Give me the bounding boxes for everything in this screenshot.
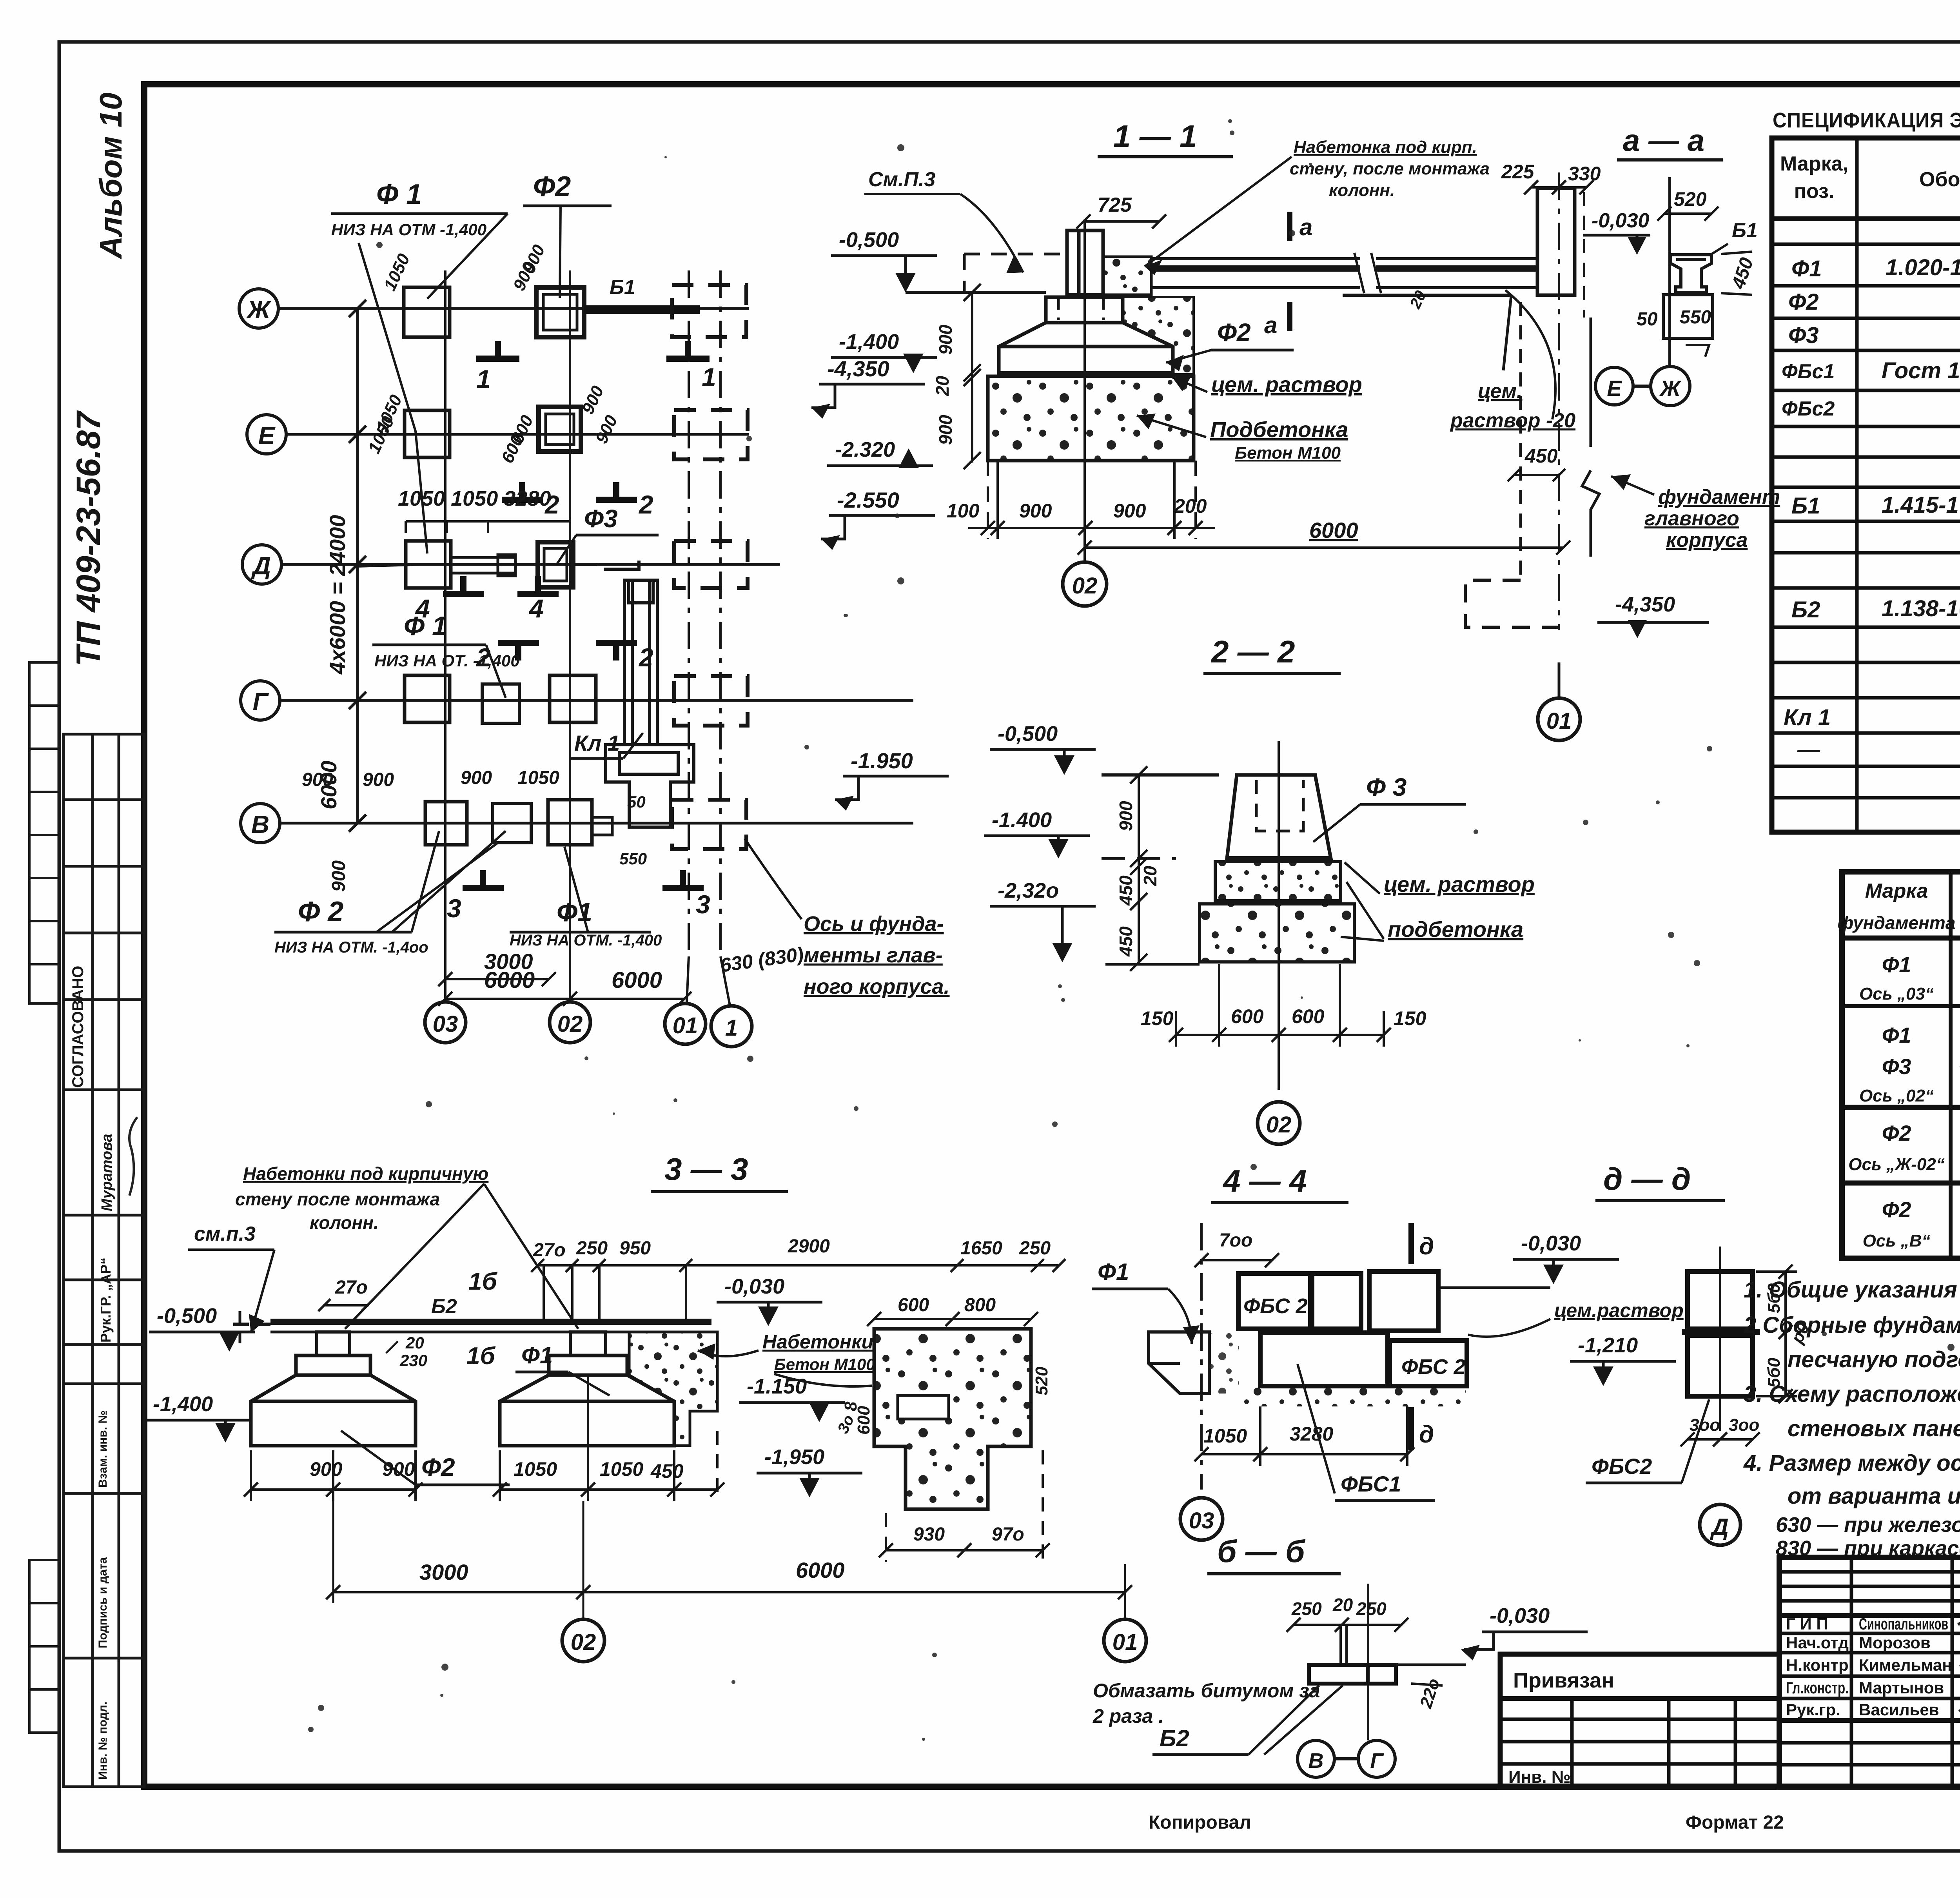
- svg-text:01: 01: [1112, 1629, 1138, 1655]
- svg-text:Ф1: Ф1: [521, 1342, 553, 1368]
- svg-text:Д: Д: [251, 552, 271, 580]
- svg-text:1: 1: [725, 1015, 738, 1041]
- svg-text:Б2: Б2: [1791, 597, 1820, 622]
- label cem rastvor: [1172, 372, 1362, 397]
- svg-text:20: 20: [1140, 866, 1160, 886]
- section mark 2-2 upper: [502, 482, 637, 500]
- svg-text:-0,500: -0,500: [998, 722, 1058, 746]
- axis circle 02 under 1-1: [1063, 562, 1107, 606]
- bottom margin texts: [1149, 1812, 1784, 1833]
- dims 1050 3280 (4-4): [1203, 1423, 1333, 1447]
- axis circle 03 (4-4): [1180, 1498, 1223, 1540]
- svg-text:600: 600: [854, 1406, 873, 1435]
- svg-text:450: 450: [1524, 445, 1558, 467]
- label nabetonki beton M100: [698, 1331, 875, 1386]
- svg-text:стену после монтажа: стену после монтажа: [235, 1189, 440, 1209]
- svg-text:Инв. №: Инв. №: [1508, 1767, 1571, 1787]
- vertical dim line 24000: [349, 300, 366, 832]
- svg-text:1.020-1/83 1-1: 1.020-1/83 1-1: [1886, 255, 1960, 280]
- svg-text:Взам. инв. №: Взам. инв. №: [96, 1410, 109, 1488]
- label FBS1 (4-4): [1298, 1364, 1435, 1501]
- svg-text:-0,030: -0,030: [724, 1275, 784, 1298]
- svg-text:Ось „В“: Ось „В“: [1863, 1231, 1931, 1250]
- svg-text:225: 225: [1501, 161, 1535, 183]
- svg-text:ФБс2: ФБс2: [1782, 397, 1835, 420]
- svg-text:ФБС2: ФБС2: [1592, 1454, 1652, 1479]
- svg-text:930: 930: [913, 1524, 945, 1545]
- svg-text:песчаную подготовку высотой: песчаную подготовку высотой h=100мм .: [1788, 1347, 1960, 1372]
- elevation -1.150: [739, 1375, 860, 1436]
- svg-text:от варианта исполнения гла: от варианта исполнения главного корпуса …: [1788, 1483, 1960, 1509]
- svg-text:Привязан: Привязан: [1513, 1669, 1614, 1692]
- NOTES: [1743, 1277, 1960, 1560]
- foundation trapezoid 2 (F1): [500, 1332, 674, 1446]
- svg-text:150: 150: [1394, 1007, 1426, 1029]
- svg-text:-0,500: -0,500: [839, 228, 899, 252]
- svg-text:Ф2: Ф2: [533, 171, 571, 202]
- dims 225 330: [1501, 161, 1601, 194]
- svg-text:Кимельман: Кимельман: [1859, 1656, 1952, 1674]
- svg-text:ФБС1: ФБС1: [1341, 1472, 1401, 1496]
- svg-text:Г И П: Г И П: [1786, 1615, 1828, 1633]
- svg-text:900: 900: [382, 1458, 415, 1480]
- svg-text:02: 02: [1072, 573, 1098, 599]
- dashed rect row D: [674, 541, 748, 588]
- dim 450 mid: [1508, 445, 1565, 481]
- svg-text:1050 1050 3280: 1050 1050 3280: [398, 487, 551, 510]
- svg-text:03: 03: [1189, 1508, 1214, 1533]
- elevation -1.210 (4-4): [1570, 1334, 1676, 1386]
- svg-text:900: 900: [1019, 500, 1052, 522]
- elevation -0.030 (4-4): [1441, 1232, 1619, 1288]
- rotated dims top: [365, 242, 622, 466]
- load table header texts: [1838, 878, 1960, 944]
- dim 520: [1657, 188, 1719, 221]
- label F3 (2-2): [1313, 773, 1466, 842]
- svg-text:д: д: [1419, 1421, 1434, 1448]
- svg-text:а: а: [1299, 214, 1312, 240]
- floor beams: [1151, 253, 1536, 293]
- strip labels: [69, 966, 137, 1780]
- svg-text:корпуса: корпуса: [1666, 529, 1748, 552]
- svg-text:1.138-10 в.1: 1.138-10 в.1: [1882, 596, 1960, 621]
- svg-text:520: 520: [1674, 188, 1707, 210]
- svg-text:-4,350: -4,350: [1615, 593, 1675, 616]
- squares row E: [405, 407, 581, 457]
- svg-text:Подпись и дата: Подпись и дата: [96, 1557, 109, 1648]
- svg-text:50: 50: [627, 793, 646, 811]
- scan specks: [308, 119, 1960, 1741]
- svg-text:6000: 6000: [484, 967, 535, 993]
- axis row lines: [278, 308, 913, 823]
- svg-text:7оо: 7оо: [1219, 1230, 1252, 1251]
- svg-text:цем.: цем.: [1478, 380, 1522, 403]
- svg-text:д — д: д — д: [1603, 1161, 1691, 1196]
- section mark 1-1 on plan: [476, 341, 710, 359]
- svg-text:600: 600: [1231, 1005, 1264, 1027]
- svg-text:Ось „Ж-02“: Ось „Ж-02“: [1848, 1155, 1944, 1174]
- svg-text:1050: 1050: [600, 1458, 643, 1480]
- label F2 top: [523, 171, 612, 298]
- svg-text:Д: Д: [1710, 1514, 1728, 1540]
- svg-text:900: 900: [302, 769, 333, 790]
- elevation -4.350 low: [1597, 593, 1709, 638]
- svg-text:550: 550: [619, 849, 647, 868]
- svg-text:Обмазать битумом за: Обмазать битумом за: [1093, 1680, 1320, 1702]
- dashed rect row E: [674, 410, 748, 459]
- TITLE BLOCK attachment table: [1500, 1654, 1779, 1787]
- svg-text:Б1: Б1: [1791, 493, 1820, 519]
- label obmazat bitumom: [1093, 1680, 1320, 1727]
- axis circle 01 under 1-1: [1538, 662, 1580, 740]
- axis circles E Zh in a-a: [1595, 367, 1690, 406]
- axis circle V: [241, 804, 280, 843]
- svg-text:Формат 22: Формат 22: [1686, 1812, 1784, 1833]
- svg-text:Мартынов: Мартынов: [1859, 1678, 1944, 1697]
- nabetonka stipple right of column: [1103, 257, 1151, 295]
- svg-text:3: 3: [696, 890, 710, 919]
- svg-text:Рук.ГР. „АР“: Рук.ГР. „АР“: [98, 1257, 114, 1343]
- label F3: [557, 504, 659, 564]
- right column of section 1-1: [1343, 172, 1599, 630]
- vertical axis 02: [569, 270, 571, 1003]
- svg-text:В: В: [1308, 1749, 1324, 1773]
- elevation -1.400: [831, 330, 937, 373]
- elevation -1.400 (3-3): [145, 1392, 251, 1443]
- svg-text:Подбетонка: Подбетонка: [1210, 417, 1348, 442]
- svg-text:главного: главного: [1644, 507, 1739, 530]
- bottom dims of section 1-1: [947, 495, 1207, 522]
- section mark 3-3: [463, 870, 704, 888]
- svg-text:150: 150: [1141, 1007, 1174, 1029]
- beam B2 line: [233, 1311, 711, 1344]
- svg-text:450: 450: [650, 1460, 684, 1482]
- elevation -4.350: [811, 356, 925, 419]
- svg-text:а: а: [1264, 312, 1277, 338]
- svg-text:Ф 1: Ф 1: [404, 611, 447, 641]
- svg-text:-1.950: -1.950: [851, 748, 913, 773]
- dashed rect row G: [674, 676, 748, 726]
- svg-text:Н.контр.: Н.контр.: [1786, 1656, 1853, 1674]
- axis circle E: [247, 415, 286, 454]
- svg-text:цем. раствор: цем. раствор: [1211, 372, 1362, 397]
- svg-text:Ж: Ж: [1659, 376, 1682, 401]
- title block signature labels: [1786, 1615, 1952, 1719]
- nabetonka stipple wedge: [1123, 297, 1194, 374]
- svg-text:-0,030: -0,030: [1490, 1604, 1550, 1628]
- svg-text:фундамента: фундамента: [1838, 913, 1956, 933]
- svg-text:450: 450: [1116, 875, 1136, 906]
- channel Kl1: [606, 580, 694, 827]
- dims 930 970: [913, 1524, 1024, 1545]
- svg-text:4 — 4: 4 — 4: [1222, 1163, 1307, 1198]
- svg-text:725: 725: [1098, 194, 1132, 216]
- svg-text:1050: 1050: [1203, 1425, 1247, 1447]
- dim 6000 under 1-1: [1078, 518, 1570, 555]
- svg-text:Обозначение: Обозначение: [1919, 168, 1960, 191]
- svg-text:-1,400: -1,400: [153, 1392, 213, 1416]
- d-d blocks: [1682, 1247, 1760, 1431]
- left registration strip: [64, 734, 144, 1787]
- label FBS2 (d-d): [1586, 1399, 1709, 1483]
- axis line through a-a: [1670, 177, 1709, 365]
- svg-text:-2.550: -2.550: [837, 488, 899, 512]
- svg-text:4. Размер между осями „01“: 4. Размер между осями „01“-„1“ определяе…: [1743, 1450, 1960, 1476]
- axis circle D: [242, 545, 281, 584]
- label F1 top: [331, 179, 508, 553]
- squares row G: [405, 675, 596, 723]
- svg-text:3. Схему расположения цокол: 3. Схему расположения цокольных балок см…: [1744, 1381, 1960, 1407]
- svg-text:Б1: Б1: [1732, 219, 1758, 242]
- svg-text:200: 200: [1174, 495, 1207, 517]
- dims under trap2: [514, 1458, 684, 1482]
- load table row label col: [1848, 952, 1944, 1250]
- label sm.p.3 (3-3): [188, 1223, 274, 1333]
- beam B1 on plan: [584, 276, 700, 310]
- svg-text:1: 1: [476, 365, 491, 394]
- nabetonka stipple right of trap2: [629, 1332, 717, 1446]
- rotated dims right mass: [854, 1366, 1051, 1435]
- blocks row1 (4-4): [1238, 1272, 1438, 1331]
- svg-text:Набетонка под кирп.: Набетонка под кирп.: [1294, 138, 1477, 157]
- svg-text:900: 900: [461, 768, 492, 788]
- label podbetonka: [1137, 414, 1348, 463]
- svg-text:520: 520: [1032, 1366, 1051, 1395]
- svg-text:Набетонки под кирпичную: Набетонки под кирпичную: [243, 1163, 488, 1184]
- svg-text:колонн.: колонн.: [1329, 181, 1395, 200]
- svg-text:900: 900: [1113, 500, 1146, 522]
- elevation -0.030 (3-3): [717, 1275, 822, 1326]
- dim 725: [1076, 194, 1166, 229]
- section 1-1 title: [1098, 119, 1233, 157]
- svg-text:ФБС 2: ФБС 2: [1243, 1294, 1308, 1318]
- svg-text:Гл.констр.: Гл.констр.: [1786, 1678, 1849, 1697]
- svg-text:—: —: [1797, 737, 1820, 762]
- svg-text:Ф1: Ф1: [1882, 952, 1911, 977]
- svg-text:01: 01: [673, 1013, 698, 1038]
- vertical axis 1 dash-dot: [720, 270, 730, 1005]
- svg-text:раствор -20: раствор -20: [1450, 409, 1575, 432]
- section mark 4-4: [443, 576, 559, 594]
- svg-text:3оо: 3оо: [1690, 1415, 1720, 1435]
- svg-text:Копировал: Копировал: [1149, 1812, 1251, 1833]
- elevation -0.500 (3-3): [149, 1304, 255, 1352]
- svg-text:Е: Е: [1607, 376, 1622, 401]
- svg-text:20: 20: [405, 1334, 424, 1352]
- axis line of 1-1: [1083, 220, 1086, 561]
- dims 600 800: [898, 1295, 996, 1316]
- bottom dims (2-2): [1169, 964, 1391, 1047]
- svg-text:-1,400: -1,400: [839, 330, 899, 354]
- svg-text:СПЕЦИФИКАЦИЯ ЭЛЕМЕНТОВ К СХЕМЕ: СПЕЦИФИКАЦИЯ ЭЛЕМЕНТОВ К СХЕМЕ РАСПОЛОЖЕ…: [1773, 109, 1960, 132]
- note osk i fundamenty: [745, 839, 950, 998]
- label B1 in a-a: [1709, 219, 1758, 256]
- svg-text:стеновых панелей - лист 13: стеновых панелей - лист 13: [1788, 1416, 1960, 1441]
- svg-text:Ф3: Ф3: [1882, 1054, 1911, 1079]
- svg-text:-0,030: -0,030: [1521, 1232, 1581, 1255]
- svg-text:поз.: поз.: [1794, 180, 1835, 203]
- LOAD TABLE grid: [1842, 872, 1960, 1258]
- foundation F2 in section 1-1: [999, 297, 1173, 374]
- svg-text:Е: Е: [258, 421, 276, 450]
- svg-text:менты глав-: менты глав-: [804, 944, 943, 967]
- svg-text:НИЗ НА ОТМ. -1,400: НИЗ НА ОТМ. -1,400: [510, 932, 662, 949]
- svg-text:900: 900: [363, 769, 394, 790]
- F1 block left (4-4): [1149, 1332, 1209, 1394]
- axis dash-dot (4-4): [1200, 1223, 1203, 1490]
- SPEC TABLE title: [1773, 109, 1960, 132]
- vertical dim chain 900/20/900: [964, 284, 981, 469]
- svg-text:6000: 6000: [1309, 518, 1358, 543]
- svg-text:-2.320: -2.320: [835, 438, 895, 461]
- svg-text:900: 900: [1116, 801, 1136, 831]
- svg-text:Ж: Ж: [246, 296, 272, 324]
- svg-text:02: 02: [571, 1629, 596, 1655]
- beam T cross-section B1: [1671, 255, 1711, 292]
- svg-text:Ось „03“: Ось „03“: [1859, 984, 1934, 1003]
- elevation -0.030 (b-b): [1396, 1604, 1588, 1665]
- dims 20 230: [386, 1334, 427, 1370]
- squares row D: [406, 541, 573, 588]
- signatures squiggles: [1958, 1618, 1960, 1716]
- far-left edge mini cells: [29, 662, 59, 1733]
- svg-text:Ф3: Ф3: [584, 504, 618, 533]
- dim 1050 1050 3280: [398, 487, 570, 533]
- svg-text:Б1: Б1: [610, 276, 635, 299]
- svg-text:1б: 1б: [468, 1268, 497, 1295]
- svg-text:Ось и фунда-: Ось и фунда-: [804, 912, 944, 936]
- label F1 (4-4): [1092, 1259, 1200, 1344]
- svg-text:2: 2: [638, 490, 653, 519]
- vertical axis 03: [444, 270, 446, 1003]
- svg-text:Альбом 10: Альбом 10: [93, 93, 128, 259]
- label sm.p.3: [864, 168, 1023, 273]
- svg-text:900: 900: [310, 1458, 343, 1480]
- svg-text:Васильев: Васильев: [1859, 1700, 1939, 1719]
- svg-text:д: д: [1419, 1233, 1434, 1260]
- svg-text:Ф 1: Ф 1: [376, 179, 422, 210]
- podbetonka stippled block: [988, 376, 1194, 461]
- axis circle 02 bottom: [550, 1002, 590, 1043]
- svg-text:50: 50: [1637, 309, 1658, 330]
- elevation -1.400 (2-2): [984, 808, 1090, 858]
- stipple under row2 (4-4): [1239, 1388, 1466, 1406]
- svg-text:ФБС 2: ФБС 2: [1401, 1355, 1466, 1379]
- svg-text:230: 230: [399, 1351, 427, 1370]
- dims above V row: [302, 768, 559, 790]
- svg-text:Ф2: Ф2: [421, 1453, 455, 1481]
- axis circles V G (b-b): [1298, 1740, 1395, 1777]
- svg-text:1.415-1: 1.415-1: [1882, 492, 1959, 518]
- section mark 2-2 lower: [498, 643, 637, 660]
- svg-text:01: 01: [1546, 708, 1572, 734]
- dashed rect row Zh: [672, 285, 746, 337]
- TITLE BLOCK main: [1779, 1557, 1960, 1787]
- dim 700 (4-4): [1194, 1230, 1279, 1267]
- svg-text:В: В: [251, 810, 269, 838]
- stipple block mid (2-2): [1215, 862, 1341, 901]
- svg-text:250: 250: [1356, 1599, 1387, 1619]
- svg-text:450: 450: [1116, 926, 1136, 957]
- svg-text:20: 20: [932, 376, 953, 396]
- svg-text:Б2: Б2: [1160, 1725, 1189, 1751]
- svg-text:3280: 3280: [1290, 1423, 1333, 1445]
- label cem rastvor (2-2): [1345, 862, 1535, 896]
- section 3-3 title: [651, 1152, 788, 1192]
- label F2 bottom left: [274, 831, 506, 956]
- svg-text:3000: 3000: [419, 1560, 468, 1584]
- svg-text:1. Общие указания см. на: 1. Общие указания см. на листе 1: [1744, 1277, 1960, 1303]
- svg-text:Инв. № подл.: Инв. № подл.: [96, 1702, 109, 1780]
- axis circle D (d-d): [1700, 1504, 1740, 1545]
- elevation -0.500: [831, 228, 937, 292]
- svg-text:-0,500: -0,500: [157, 1304, 217, 1328]
- axis circle 03 bottom: [425, 1002, 466, 1043]
- spec table grid: [1772, 138, 1960, 832]
- squares row V: [425, 800, 612, 845]
- blocks row2 (4-4): [1260, 1333, 1467, 1386]
- svg-text:цем.раствор: цем.раствор: [1554, 1299, 1684, 1321]
- label nabetonki pod kirpichnuyu: [235, 1163, 578, 1329]
- b-b dims 250 20 250: [1291, 1595, 1387, 1619]
- dashed floor left of column: [964, 254, 1067, 292]
- elevation -2.320: [827, 438, 933, 468]
- dims under trap1: [310, 1458, 415, 1480]
- svg-text:НИЗ НА ОТМ. -1,4оо: НИЗ НА ОТМ. -1,4оо: [274, 939, 428, 956]
- svg-text:колонн.: колонн.: [310, 1212, 379, 1233]
- axis circle Zh: [239, 289, 278, 328]
- svg-text:Ф1: Ф1: [1098, 1259, 1129, 1285]
- rotated doc number TP 409-23-56.87: [70, 410, 107, 666]
- svg-text:Ф3: Ф3: [1788, 323, 1819, 348]
- section a-a title: [1617, 123, 1723, 160]
- column of section 1-1: [1067, 230, 1103, 295]
- svg-text:950: 950: [619, 1238, 651, 1259]
- small 20 dim right: [1406, 288, 1430, 312]
- svg-text:6000: 6000: [796, 1558, 845, 1582]
- svg-text:800: 800: [964, 1295, 996, 1316]
- vertical axis 01 dash-dot: [687, 270, 689, 1003]
- elevation -0.030 top: [1583, 209, 1650, 255]
- svg-text:Ф1: Ф1: [1791, 256, 1822, 281]
- axis circle 1 bottom: [711, 1006, 752, 1047]
- elevation -2.320 (2-2): [990, 879, 1096, 962]
- ground line: [906, 291, 1046, 294]
- svg-text:ФБс1: ФБс1: [1782, 360, 1835, 383]
- svg-text:Ф 3: Ф 3: [1366, 773, 1406, 801]
- svg-text:2: 2: [638, 643, 653, 672]
- svg-text:Гост 13579-78: Гост 13579-78: [1882, 358, 1960, 383]
- svg-text:Морозов: Морозов: [1859, 1633, 1931, 1652]
- 1d marks (4-4): [1408, 1223, 1414, 1450]
- section d-d title: [1595, 1161, 1725, 1201]
- svg-text:Б2: Б2: [431, 1295, 457, 1318]
- svg-text:-0,030: -0,030: [1592, 209, 1650, 232]
- svg-text:см.п.3: см.п.3: [194, 1223, 256, 1245]
- dim 450 right: [1721, 252, 1757, 295]
- svg-text:Набетонки: Набетонки: [762, 1331, 873, 1353]
- svg-text:1 — 1: 1 — 1: [1113, 119, 1197, 154]
- svg-text:Кл 1: Кл 1: [574, 731, 620, 755]
- svg-text:900: 900: [935, 325, 956, 355]
- svg-text:Ф 2: Ф 2: [298, 896, 343, 927]
- b-b blocks: [1309, 1665, 1396, 1684]
- svg-text:3 — 3: 3 — 3: [664, 1152, 748, 1187]
- svg-text:1650: 1650: [960, 1238, 1002, 1259]
- svg-text:Бетон М100: Бетон М100: [774, 1355, 875, 1374]
- svg-text:Муратова: Муратова: [99, 1134, 115, 1211]
- elevation -0.500 (2-2): [990, 722, 1096, 775]
